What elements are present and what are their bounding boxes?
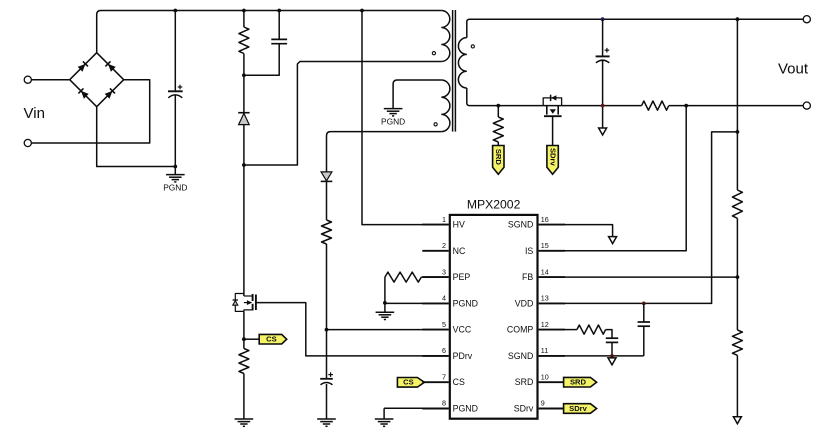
- ground pin8: [375, 418, 394, 420]
- svg-text:PGND: PGND: [453, 404, 478, 414]
- resistor R7 srd: [497, 106, 499, 117]
- wire gate to PDrv: [256, 303, 449, 356]
- wire secondary top to Vout+: [467, 19, 803, 37]
- ground arrow pin16: [609, 237, 617, 244]
- wire pin13 VDD: [565, 132, 737, 304]
- diode D1 clamp: [238, 112, 249, 114]
- mosfet Q2 stubs: [546, 106, 548, 115]
- transformer T1 secondary winding: [458, 38, 466, 88]
- wire rail to C6: [602, 19, 604, 56]
- svg-text:14: 14: [541, 267, 549, 276]
- junction rail-C1: [173, 9, 177, 13]
- mosfet Q2 gate bar: [544, 115, 562, 117]
- resistor R1 snubber: [239, 27, 249, 54]
- wire pin8 PGND: [384, 407, 449, 409]
- wire D1 to drain node: [243, 125, 245, 165]
- wire VCC node to pin5: [327, 329, 449, 331]
- resistor R5 pep: [385, 272, 421, 282]
- wire pin11 SGND: [565, 355, 644, 357]
- svg-text:4: 4: [442, 294, 446, 303]
- bridge diode D_TR: [105, 61, 115, 71]
- junction SGND-comp: [610, 354, 614, 358]
- wire rail through Q2: [543, 105, 561, 107]
- svg-text:SDrv: SDrv: [569, 404, 588, 413]
- junction snubber RC: [242, 73, 246, 77]
- svg-text:PGND: PGND: [453, 298, 478, 308]
- svg-text:PGND: PGND: [381, 116, 405, 126]
- wire R10 to ground: [736, 355, 738, 417]
- svg-text:SRD: SRD: [515, 377, 534, 387]
- transformer T1 aux winding: [441, 80, 450, 132]
- wire C5 to SGND line: [611, 342, 613, 356]
- capacitor C6 out +: [596, 55, 610, 57]
- svg-text:SDrv: SDrv: [514, 404, 534, 414]
- ic right pin stubs 9-16: [539, 224, 565, 226]
- svg-text:FB: FB: [522, 272, 533, 282]
- bridge rectifier diamond: [70, 53, 124, 107]
- junction drain node: [242, 163, 246, 167]
- flag SRD secondary: [493, 146, 504, 175]
- wire rail to R1: [243, 11, 245, 28]
- svg-text:Vin: Vin: [24, 105, 45, 122]
- svg-text:SGND: SGND: [508, 220, 533, 230]
- terminal Vin+: [24, 76, 31, 83]
- wire node to D1: [243, 75, 245, 112]
- wire VDD to C4: [643, 303, 645, 322]
- wire C4 to SGND line: [643, 326, 645, 356]
- junction rail-HV: [360, 9, 364, 13]
- junction FB node: [736, 275, 740, 279]
- wire aux top to PGND: [393, 80, 441, 109]
- junction VDD tap: [736, 130, 740, 134]
- terminal Vout-: [803, 102, 810, 109]
- wire source to CS node: [243, 311, 245, 348]
- svg-text:NC: NC: [453, 246, 466, 256]
- svg-text:PDrv: PDrv: [453, 351, 473, 361]
- wire pin7 stub: [424, 381, 448, 383]
- bridge diode D_BL: [78, 88, 88, 98]
- svg-text:10: 10: [541, 372, 549, 381]
- flag SDrv secondary: [547, 146, 558, 175]
- svg-text:SRD: SRD: [494, 149, 503, 166]
- wire VCC node to C3: [326, 330, 328, 379]
- mosfet Q1 channel: [252, 294, 254, 301]
- wire C3 to ground: [326, 384, 328, 419]
- wire R1 to node: [243, 54, 245, 76]
- wire pin4 PGND: [385, 302, 449, 304]
- transformer T1 core: [452, 10, 454, 132]
- svg-text:5: 5: [442, 320, 446, 329]
- wire C1 to PGND node: [174, 95, 176, 166]
- mosfet Q2 SR body diode: [550, 95, 552, 101]
- wire C6 to bottom rail: [602, 60, 604, 105]
- wire divider top: [736, 19, 738, 190]
- wire pep stub: [421, 276, 448, 278]
- svg-text:Vout: Vout: [778, 60, 809, 77]
- ground arrow pin11: [608, 358, 616, 365]
- wire out resistor to Vout-: [669, 105, 803, 107]
- wire R9 to FB: [736, 218, 738, 277]
- junction IS node: [684, 104, 688, 108]
- svg-text:VDD: VDD: [515, 298, 534, 308]
- svg-text:SGND: SGND: [508, 351, 533, 361]
- transformer T1 aux dot: [434, 123, 437, 126]
- svg-text:2: 2: [442, 241, 446, 250]
- transformer T1 primary dot: [432, 52, 435, 55]
- svg-text:16: 16: [541, 215, 549, 224]
- junction pep gnd node: [383, 301, 387, 305]
- wire secondary bottom rail: [467, 88, 543, 106]
- junction rail-Csn: [277, 9, 281, 13]
- svg-text:PGND: PGND: [163, 182, 187, 192]
- terminal Vin-: [24, 139, 31, 146]
- ground PGND input: [174, 167, 176, 175]
- junction outcap top: [601, 17, 605, 21]
- svg-text:SRD: SRD: [570, 378, 587, 387]
- svg-text:HV: HV: [453, 220, 465, 230]
- wire Vin- to bridge right: [31, 80, 149, 143]
- ground arrow output: [599, 128, 607, 135]
- bridge diode D_BR: [105, 88, 115, 98]
- flag SRD pin10: [564, 377, 597, 387]
- svg-text:6: 6: [442, 346, 446, 355]
- diode D2 vcc rectifier: [321, 180, 333, 182]
- wire SGND to arrow: [611, 356, 613, 358]
- svg-text:1: 1: [442, 215, 446, 224]
- svg-text:CS: CS: [266, 335, 277, 344]
- svg-text:15: 15: [541, 241, 549, 250]
- mosfet Q2 arrow: [550, 109, 556, 114]
- wire pep to gnd node: [384, 277, 386, 303]
- ground PGND aux: [384, 108, 403, 110]
- wire C2 to node: [244, 44, 279, 76]
- svg-text:8: 8: [442, 399, 446, 408]
- wire drain: [243, 165, 245, 296]
- mosfet Q1 gate bar: [255, 295, 257, 311]
- wire pin15 IS: [565, 106, 686, 251]
- wire R4 to ground: [243, 374, 245, 420]
- wire top rail: [97, 11, 442, 53]
- wire pin14 FB: [565, 276, 737, 278]
- capacitor C1 bulk +: [168, 90, 183, 92]
- bridge diode D_TL: [78, 61, 88, 71]
- mosfet Q1 drain lead: [244, 295, 253, 297]
- wire rail to C2: [278, 11, 280, 40]
- transformer T1 primary winding: [441, 11, 450, 62]
- resistor R6 comp: [577, 325, 606, 334]
- wire pin16 SGND: [565, 225, 613, 237]
- svg-text:12: 12: [541, 320, 549, 329]
- wire aux bottom to VCC diode: [327, 132, 442, 172]
- wire outgnd stub: [602, 106, 604, 128]
- ic left pin stubs 1-8: [422, 224, 448, 226]
- svg-text:COMP: COMP: [507, 325, 534, 335]
- capacitor C2 snubber: [271, 38, 287, 40]
- junction input PGND node: [173, 165, 177, 169]
- wire Q2 to out resistor: [562, 105, 642, 107]
- wire pin12 COMP: [565, 329, 577, 331]
- wire Q2 gate to flag: [552, 116, 554, 145]
- ground arrow divider: [733, 417, 741, 424]
- wire FB to R10: [736, 277, 738, 330]
- svg-text:SDrv: SDrv: [549, 148, 558, 167]
- mosfet Q1 body diode: [233, 299, 238, 301]
- capacitor C3 vcc +: [320, 378, 333, 380]
- svg-text:7: 7: [442, 372, 446, 381]
- svg-text:13: 13: [541, 294, 549, 303]
- wire HV: [362, 11, 449, 225]
- junction VCC node: [325, 328, 329, 332]
- junction out cap bottom: [601, 104, 605, 108]
- wire rail to C1: [174, 11, 176, 92]
- svg-text:PEP: PEP: [453, 272, 471, 282]
- svg-text:9: 9: [541, 399, 545, 408]
- junction rail-R1: [242, 9, 246, 13]
- transformer T1 secondary dot: [471, 45, 474, 48]
- flag CS source: [259, 334, 287, 344]
- ground pep: [384, 303, 386, 312]
- wire bridge bottom to PGND rail: [97, 107, 176, 167]
- flag SDrv pin9: [564, 404, 597, 414]
- svg-text:CS: CS: [403, 378, 414, 387]
- resistor R10 divider lower: [732, 330, 742, 355]
- flag CS pin7: [397, 378, 424, 388]
- ground sense: [235, 418, 254, 420]
- capacitor C4 vdd: [638, 321, 650, 323]
- resistor R3 vcc: [322, 220, 332, 244]
- svg-text:CS: CS: [453, 377, 465, 387]
- wire D2 to R3: [326, 181, 328, 220]
- svg-text:MPX2002: MPX2002: [467, 197, 521, 211]
- wire R3 to VCC node: [326, 244, 328, 330]
- svg-text:IS: IS: [525, 246, 533, 256]
- ic U1 MPX2002 box: [450, 215, 538, 419]
- mosfet Q1 body diode loop: [235, 294, 244, 312]
- mosfet Q1 source arrow: [244, 302, 247, 304]
- svg-text:VCC: VCC: [453, 325, 472, 335]
- ground vcc cap: [317, 418, 336, 420]
- resistor R4 sense: [239, 349, 249, 374]
- junction CS node: [242, 337, 246, 341]
- wire drain node to primary bottom: [244, 62, 441, 166]
- junction srd resistor: [496, 104, 500, 108]
- terminal Vout+: [803, 16, 810, 23]
- wire Vin+ to bridge: [31, 79, 69, 81]
- resistor R8 output: [642, 101, 669, 110]
- capacitor C5 comp: [606, 337, 618, 339]
- svg-text:3: 3: [442, 267, 446, 276]
- junction VDD cap: [642, 302, 646, 306]
- mosfet Q2 SR body diode loop: [543, 98, 561, 106]
- resistor R9 divider upper: [732, 190, 742, 218]
- wire CS node to flag: [244, 338, 259, 340]
- wire R6 to C5: [606, 330, 612, 339]
- junction divider top: [736, 17, 740, 21]
- mosfet Q1 source lead: [244, 310, 253, 312]
- svg-text:11: 11: [541, 346, 548, 355]
